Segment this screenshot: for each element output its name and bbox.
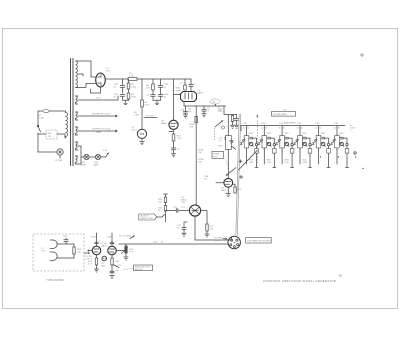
svg-text:4.7K: 4.7K xyxy=(145,105,150,107)
svg-text:PROT: PROT xyxy=(213,156,219,158)
svg-text:C8B: C8B xyxy=(180,110,185,112)
wire lamp out arrow xyxy=(101,150,109,157)
inductor L1 label xyxy=(210,99,222,112)
tube V6 xyxy=(107,233,116,255)
wire V2 cathode bus xyxy=(184,102,226,107)
capacitor C5 xyxy=(189,79,197,91)
label box STABILITY xyxy=(212,151,228,166)
svg-text:POT: POT xyxy=(130,252,135,254)
svg-text:ADJUST: ADJUST xyxy=(141,215,150,218)
svg-text:22K: 22K xyxy=(146,88,150,90)
tube V8 6AB4 xyxy=(161,120,178,129)
wire V8 cathode stub xyxy=(169,131,173,133)
svg-text:2.2M: 2.2M xyxy=(134,115,139,117)
svg-text:1M: 1M xyxy=(188,111,191,113)
resistor R27 xyxy=(206,211,214,234)
registration cross xyxy=(360,53,364,57)
ground C22 xyxy=(182,233,186,236)
svg-text:100K: 100K xyxy=(176,90,182,92)
wire V3 cathode down xyxy=(194,216,196,240)
label remove short box xyxy=(123,265,153,271)
driver stage Q7 xyxy=(219,115,236,150)
label B+ xyxy=(350,125,356,132)
label box socket view xyxy=(246,238,272,244)
svg-text:LAMP: LAMP xyxy=(93,164,99,167)
wire heater note xyxy=(144,116,157,118)
resistor R26 xyxy=(158,203,167,223)
wire heater 6.3V tap xyxy=(78,96,118,100)
svg-text:15K: 15K xyxy=(198,162,202,164)
resistor R38 label xyxy=(267,160,272,165)
ground filter pair1 xyxy=(123,100,129,104)
ground filter pair2 xyxy=(153,100,161,104)
resistor R8 xyxy=(188,109,192,114)
dashed feedback line xyxy=(256,114,258,163)
wire heater tap B xyxy=(78,129,118,134)
socket J1 xyxy=(228,236,240,248)
power plug P1 xyxy=(38,149,63,162)
resistor R32 xyxy=(112,253,115,254)
label V5 V6 xyxy=(101,243,108,248)
ground neon xyxy=(140,138,144,144)
node dots right xyxy=(320,152,364,169)
label R9 boxed xyxy=(218,109,223,114)
B+ bus wire xyxy=(241,125,345,127)
main output line xyxy=(119,242,228,245)
wire V2 grid stub xyxy=(174,94,182,96)
amplifier stage Q3 xyxy=(275,123,294,167)
svg-text:6AK5: 6AK5 xyxy=(221,189,227,192)
node junction with label R5 xyxy=(134,112,142,129)
wire V8 plate feed from rail xyxy=(174,79,182,121)
wire HV top tap to V1 plate xyxy=(78,61,96,77)
amplifier stage Q5 xyxy=(311,123,330,167)
amplifier stage Q1 xyxy=(239,123,258,167)
node HV center tap xyxy=(78,74,83,76)
transformer T1 core xyxy=(71,58,74,166)
svg-text:6.8K: 6.8K xyxy=(285,162,290,164)
capacitor C7B xyxy=(234,115,238,126)
capacitor C6 xyxy=(202,106,211,117)
resistor R40 label xyxy=(303,160,308,165)
svg-text:6.8K: 6.8K xyxy=(267,162,272,164)
resistor R10 xyxy=(172,129,181,148)
svg-text:GRN: GRN xyxy=(96,132,101,134)
potentiometer arrow T2 drive xyxy=(215,120,225,140)
capacitor C24 xyxy=(57,236,68,245)
junction tick coax xyxy=(240,175,243,178)
capacitor C3B xyxy=(158,94,168,100)
capacitor C22 xyxy=(177,222,187,233)
svg-text:6AN8: 6AN8 xyxy=(198,91,204,94)
label box SIGNAL AMPLIFIER xyxy=(272,112,296,117)
svg-text:AMPLITUDE: AMPLITUDE xyxy=(141,217,154,220)
resistor R10B xyxy=(190,117,198,129)
wire input arrow left xyxy=(87,249,92,251)
transformer T1 winding C xyxy=(76,142,79,150)
capacitor C8B xyxy=(180,106,188,118)
ground R9 xyxy=(230,125,234,128)
wire primary bottom xyxy=(62,134,65,138)
transformer T1 winding A xyxy=(76,112,79,120)
ground C7B xyxy=(234,125,238,128)
wire bus left drop xyxy=(240,126,242,132)
svg-text:117VAC: 117VAC xyxy=(55,159,63,162)
wire heater tap A xyxy=(78,113,118,118)
neon lamp V9 xyxy=(101,256,106,267)
wire HV bottom tap to V1 plate2 xyxy=(78,83,96,87)
pilot lamp DS1 xyxy=(78,146,89,167)
main B+ dropper node xyxy=(141,79,143,100)
svg-text:CONN: CONN xyxy=(214,240,221,242)
svg-text:B HTRS OF V5,V6: B HTRS OF V5,V6 xyxy=(92,129,111,131)
svg-text:CONSTANT AMPLITUDE SIGNAL GENE: CONSTANT AMPLITUDE SIGNAL GENERATOR xyxy=(263,279,336,283)
dashed enclosure box xyxy=(33,234,84,271)
wire feedback diagonal xyxy=(239,151,258,171)
svg-text:6.8K: 6.8K xyxy=(249,162,254,164)
resistor R4 xyxy=(141,100,150,113)
transformer T1 heater winding 6.3V xyxy=(76,96,79,104)
svg-text:15K: 15K xyxy=(198,152,202,154)
wire box output arrow xyxy=(84,252,94,261)
ground R27 xyxy=(205,234,209,237)
amplifier stage Q2 xyxy=(257,123,276,167)
resistor R28 xyxy=(57,244,82,258)
wire V1 cathode to B+ rail xyxy=(105,78,112,80)
ground V6 xyxy=(110,276,114,279)
svg-text:6.8K: 6.8K xyxy=(303,162,308,164)
pilot lamp DS2 xyxy=(89,154,101,166)
svg-text:SIGNAL AMPL: SIGNAL AMPL xyxy=(273,113,288,116)
capacitor C1B xyxy=(114,94,125,100)
svg-text:12AX7: 12AX7 xyxy=(101,245,108,248)
resistor R37 label xyxy=(249,160,254,165)
resistor R30 xyxy=(110,255,120,274)
wire arrow to V4 grid xyxy=(226,168,237,176)
label to grid xyxy=(119,236,135,239)
svg-text:6AB4: 6AB4 xyxy=(161,122,167,125)
svg-text:AMPLIFIER: AMPLIFIER xyxy=(284,122,296,125)
resistor R11B label xyxy=(198,159,204,164)
wire pot to line xyxy=(125,243,127,246)
transformer T1 primary winding xyxy=(58,111,68,138)
capacitor C21 xyxy=(166,207,190,213)
transformer T1 HV secondary xyxy=(76,61,79,88)
resistor R6 xyxy=(146,79,154,90)
svg-text:TOP VIEW OF SOCKET: TOP VIEW OF SOCKET xyxy=(247,240,272,242)
ground V8 xyxy=(171,154,175,157)
amplifier stage Q4 xyxy=(293,123,312,167)
wire Q7 to V4 xyxy=(227,150,229,179)
capacitor C8 xyxy=(171,148,180,154)
svg-text:100K: 100K xyxy=(131,87,137,89)
capacitor C25 xyxy=(113,265,122,268)
tube V4 6AK5 xyxy=(221,178,233,192)
svg-text:10K: 10K xyxy=(77,252,81,254)
resistor R9 xyxy=(224,106,237,125)
svg-text:47K: 47K xyxy=(190,127,194,129)
label power socket xyxy=(214,238,228,243)
svg-text:TO HTR: TO HTR xyxy=(146,116,155,118)
junction cross coax xyxy=(239,160,242,163)
amplifier stage Q6 xyxy=(330,123,349,167)
svg-text:NE-2: NE-2 xyxy=(132,130,138,132)
wire V3 right xyxy=(201,210,207,212)
potentiometer R31 xyxy=(116,245,134,255)
resistor R11A label xyxy=(198,149,204,155)
svg-text:1.5K: 1.5K xyxy=(177,138,182,140)
capacitor C2 xyxy=(146,90,155,100)
svg-text:OSC: OSC xyxy=(181,202,186,204)
capacitor C3A xyxy=(158,79,168,94)
wire V1 heater loop xyxy=(91,87,101,93)
rectifier V1 xyxy=(96,68,111,87)
callout AUDIO AMPLITUDE xyxy=(139,214,165,220)
resistor R39 label xyxy=(285,160,290,165)
switch S1 xyxy=(37,116,40,152)
wire V3 to socket top xyxy=(195,237,232,240)
resistor R24 xyxy=(233,184,243,193)
wire bottom winding xyxy=(78,157,81,164)
wire osc plate feed xyxy=(195,106,197,204)
coil L2 half xyxy=(41,240,57,253)
transformer T1 winding D xyxy=(76,156,79,164)
ground pot xyxy=(124,255,128,261)
svg-text:100K: 100K xyxy=(131,97,137,99)
resistor R7 xyxy=(180,79,186,90)
svg-text:STABIL: STABIL xyxy=(213,152,221,155)
wire V4 left xyxy=(216,182,224,184)
svg-text:1.6A: 1.6A xyxy=(39,117,44,120)
neon lamp V7 NE-2 xyxy=(132,127,147,138)
resistor chain R25 xyxy=(158,194,168,204)
svg-text:250V: 250V xyxy=(91,237,97,239)
tube V5 xyxy=(91,233,101,255)
capacitor C1A xyxy=(114,79,125,93)
label C9B xyxy=(204,176,209,181)
svg-text:6.3V: 6.3V xyxy=(96,98,101,100)
svg-text:250V: 250V xyxy=(107,237,113,239)
svg-text:ADJUST: ADJUST xyxy=(135,268,144,271)
svg-text:TYPE 60A/60B: TYPE 60A/60B xyxy=(46,278,64,282)
svg-text:TO V3 GRID: TO V3 GRID xyxy=(119,236,132,238)
transformer T1 winding B xyxy=(76,127,79,135)
resistor R29 xyxy=(88,255,98,269)
svg-text:OSC: OSC xyxy=(41,251,46,253)
coil L3 half xyxy=(50,252,57,260)
ground V4 xyxy=(226,187,230,196)
tube V2 6AN8 xyxy=(181,90,204,102)
svg-text:A HTRS OF V3,V4: A HTRS OF V3,V4 xyxy=(92,113,111,116)
fuse F1 xyxy=(38,110,58,120)
vertical drop to ground below pot area xyxy=(112,243,114,245)
svg-text:6.3V: 6.3V xyxy=(103,150,108,152)
svg-text:10K: 10K xyxy=(158,202,162,204)
resistor R2 xyxy=(127,79,136,89)
svg-text:1.2K: 1.2K xyxy=(129,76,134,78)
line voltage selector (dashed box) xyxy=(38,130,62,139)
tube V3 6AQ5 oscillator xyxy=(181,197,201,216)
resistor R3 xyxy=(127,89,136,101)
coax shield line xyxy=(236,114,241,236)
ground V5 xyxy=(94,269,98,272)
resistor R1 in B+ rail xyxy=(112,73,191,80)
